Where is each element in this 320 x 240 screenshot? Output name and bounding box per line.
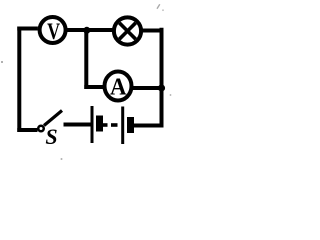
wire: branch vertical from node A down: [84, 31, 88, 90]
wire: bottom-left horizontal: [17, 128, 37, 132]
ammeter A: [105, 72, 132, 101]
svg-text:A: A: [110, 74, 127, 101]
wire: switch to battery: [64, 123, 91, 127]
voltmeter V: [40, 17, 66, 45]
wire: left vertical: [17, 27, 21, 133]
wire: voltmeter to node A: [66, 28, 88, 32]
switch S: label: [45, 124, 57, 149]
switch S: pivot circle: [38, 126, 44, 132]
battery cell 2: positive plate (long thin): [121, 107, 124, 145]
battery cell 1: positive plate (long thin): [91, 106, 94, 143]
wire: branch horizontal to ammeter: [84, 85, 104, 89]
wire: bottom-right horizontal: [134, 124, 164, 128]
wire: dashed link between cells: [111, 123, 118, 127]
wire: stub right of cell 1: [103, 123, 108, 127]
svg-text:V: V: [47, 20, 60, 45]
speck right edge: [170, 94, 172, 96]
speck bottom middle: [61, 158, 63, 160]
speck left edge: [1, 61, 3, 63]
lamp L: [114, 17, 141, 44]
wire: top-left horizontal: [17, 27, 38, 31]
node A (junction dot, top wire): [83, 27, 90, 34]
node B (junction dot, right wire): [158, 84, 165, 91]
battery cell 1: negative plate (thick short): [96, 116, 103, 132]
speck top right: [157, 4, 164, 11]
wire: node A to lamp: [88, 28, 113, 32]
svg-text:S: S: [45, 124, 57, 149]
wire: right vertical: [160, 28, 164, 128]
wire: ammeter to node B: [132, 86, 162, 90]
wire: lamp to top-right corner: [141, 29, 159, 33]
battery cell 2: negative plate (thick short): [127, 117, 134, 133]
switch S: blade: [44, 111, 62, 126]
